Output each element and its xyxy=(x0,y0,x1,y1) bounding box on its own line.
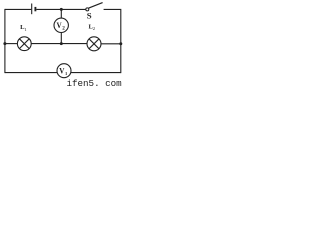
node: top junction to V2 xyxy=(60,8,63,11)
svg-text:V: V xyxy=(59,66,64,75)
wire voltmeter V1 to bottom-right xyxy=(71,72,121,74)
wire middle: lamp L1 to lamp L2 xyxy=(31,43,87,45)
wire middle: lamp L2 to right wall xyxy=(101,43,121,45)
wire top-left: corner to battery xyxy=(5,8,31,10)
node: left wall junction xyxy=(3,42,6,45)
wire V2 branch lower xyxy=(60,32,62,43)
svg-text:S: S xyxy=(87,11,92,21)
wire left side xyxy=(4,9,6,73)
voltmeter V2: circle xyxy=(54,18,68,32)
svg-text:ifen5. com: ifen5. com xyxy=(67,78,123,87)
lamp L2: circle with X xyxy=(87,37,101,51)
svg-text:2: 2 xyxy=(62,26,65,32)
wire V2 branch upper xyxy=(60,9,62,18)
battery cell: long plate (+) xyxy=(31,4,33,15)
switch S: lever arm (open) xyxy=(89,3,103,9)
wire middle: left wall to lamp L1 xyxy=(5,43,18,45)
lamp L1: circle with X xyxy=(17,37,31,51)
node: middle junction between lamps xyxy=(60,42,63,45)
wire switch to top-right corner and right side down xyxy=(104,9,121,73)
switch S: pivot contact circle xyxy=(86,8,89,11)
wire battery to switch xyxy=(36,8,86,10)
node: right wall junction xyxy=(119,42,122,45)
voltmeter V1: circle xyxy=(57,64,71,78)
battery cell: short thick plate (-) xyxy=(34,7,36,11)
svg-text:V: V xyxy=(57,21,62,30)
wire bottom-left to voltmeter V1 xyxy=(5,72,57,74)
